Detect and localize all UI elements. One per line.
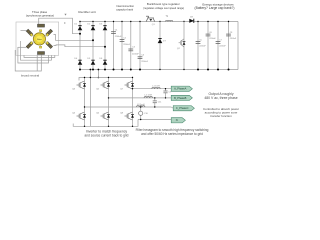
generator stator coil lower-right [46,42,53,49]
wire cap bank column 2 [121,22,123,70]
diode D8 (series, on top rail) [189,19,194,23]
svg-text:C2: C2 [123,37,127,39]
generator stator coil top [38,24,45,27]
svg-text:D5: D5 [87,58,91,60]
svg-text:D1: D1 [74,23,78,25]
wire rectifier column 2 [92,22,94,70]
wire cap bank column 3 [130,22,132,70]
node joints [132,77,133,78]
svg-text:Q7: Q7 [120,89,124,91]
wire DC feed to inverter 2 [97,70,99,78]
wire phase B (to rectifier col 2) [54,35,94,41]
wire neutral loop 2 [21,41,52,60]
wire phase C (to rectifier col 3) [54,45,106,47]
svg-text:2200uF: 2200uF [230,38,237,40]
node rail joints col 2 [92,21,93,22]
svg-text:B_PhaseB: B_PhaseB [174,96,187,100]
transistor Q6 [101,112,109,120]
wire phase line 3 to output [85,106,172,108]
transistor Q1 (series pass, on top rail) [146,16,155,21]
svg-text:D2: D2 [87,23,91,25]
wire DC top rail [80,21,238,23]
node output flag C_PhaseC [173,106,194,111]
svg-text:C8: C8 [230,32,233,34]
svg-text:C10: C10 [144,113,149,115]
svg-text:2200uF: 2200uF [209,38,216,40]
wire rectifier column 3 [104,22,106,70]
wire neutral loop 1 [24,55,55,57]
inductor T1 [166,20,173,21]
svg-text:C_PhaseC: C_PhaseC [176,106,189,110]
diode D2 [91,25,94,27]
svg-text:T1: T1 [165,16,168,18]
capacitor C1 [111,31,116,33]
wire neutral loop 3 [18,47,49,63]
wire storage column 3 [217,22,219,70]
svg-text:2200uF: 2200uF [199,46,206,48]
svg-text:and source current back to gri: and source current back to grid [85,133,129,137]
svg-text:capacitor bank: capacitor bank [116,8,134,12]
diode D1 [78,25,81,27]
inductor L2 [144,97,152,98]
svg-text:transfer function: transfer function [210,114,232,118]
svg-text:480 V ac, three phase: 480 V ac, three phase [204,96,237,100]
node joints [228,21,229,22]
node stray junction [64,22,65,23]
capacitor C2 [120,39,125,41]
wire Q2 leg [183,22,185,70]
wire storage right return [237,22,239,70]
node regulator joints [159,21,160,22]
node rail joints col 1 [79,21,80,22]
generator enclosure box [16,22,59,55]
svg-text:Q8: Q8 [120,113,124,115]
wire inverter column 2 [108,78,110,127]
transistor Q3 [77,81,85,89]
wire cap bank column 4 [139,22,141,70]
annotation: callout arrow [64,14,66,16]
svg-text:Q5: Q5 [96,89,100,91]
svg-text:2200uF: 2200uF [219,46,226,48]
capacitor C5 [196,41,201,43]
svg-text:broad neutral: broad neutral [21,74,40,78]
wire phase A (top route to rectifier col 1) [39,18,80,34]
svg-text:C9: C9 [169,92,173,94]
generator stator coil upper-right [46,29,53,36]
capacitor C4 [138,56,143,58]
node joints [217,21,218,22]
node joints [197,21,198,22]
wire inverter column 3 [132,78,134,127]
wire D7 leg [159,22,161,70]
capacitor C9 (phase A-B) [165,89,167,91]
generator stator coil bottom [38,52,45,55]
svg-text:C11: C11 [158,101,163,103]
diode D6 [103,59,106,61]
capacitor C6 [206,33,211,35]
svg-text:2200uF: 2200uF [132,53,140,55]
wire phase line 2 to output [109,97,172,99]
generator stator coil lower-left [26,42,33,49]
node rail joints col 3 [104,21,105,22]
svg-text:(regulates voltage over speed: (regulates voltage over speed range) [143,7,184,10]
wire DC feed to inverter [89,70,91,127]
svg-text:D3: D3 [99,23,103,25]
node phase tap 3 [104,46,106,48]
wire neutral stub [36,55,38,71]
transistor Q7 [125,81,133,89]
wire inverter bottom rail [73,120,138,127]
wire inverter top rail [79,78,133,81]
transistor Q4 [77,112,85,120]
svg-text:Q6: Q6 [96,113,100,115]
node joints [207,21,208,22]
svg-text:D7: D7 [163,41,167,43]
wire storage column 4 [228,22,230,70]
svg-text:Buck/boost type regulator: Buck/boost type regulator [147,2,180,6]
capacitor C11 (phase B-C) [154,98,156,101]
node joints [139,21,140,22]
wire into flag C [171,107,173,108]
svg-text:L2 1mH: L2 1mH [145,95,153,97]
diode D5 [91,59,94,61]
node joints [113,21,114,22]
node output flag B_PhaseB [171,95,192,100]
svg-text:D4: D4 [74,58,78,60]
svg-text:Q2: Q2 [177,48,181,50]
svg-text:L3 1mH: L3 1mH [137,104,145,106]
svg-text:Q3: Q3 [72,89,76,91]
node joints [84,77,85,78]
node output flag A_PhaseA [171,86,192,91]
svg-text:Q4: Q4 [72,113,76,115]
diode D3 [103,25,106,27]
generator rotor (yellow circle) [33,33,45,45]
capacitor C10 (phase C to N, round symbol) [140,107,142,111]
diode D7 (freewheel) [158,38,161,40]
svg-text:D6: D6 [99,58,103,60]
svg-text:D8: D8 [190,16,194,18]
svg-text:C4: C4 [141,55,145,57]
node joints [121,21,122,22]
wire inverter column 1 [84,78,86,127]
svg-text:C3: C3 [132,47,136,49]
svg-text:(Battery? Large cap bank?): (Battery? Large cap bank?) [195,6,235,10]
capacitor C7 [216,41,221,43]
wire storage column 1 [197,22,199,70]
wire neutral loop 4 (broad neutral bus) [15,50,41,71]
transistor Q5 [101,81,109,89]
svg-text:and offer 50/60 Hz series impe: and offer 50/60 Hz series impedance to g… [141,132,203,136]
wire cap bank column 1 [113,22,115,70]
wire storage column 2 [207,22,209,70]
svg-text:Interconnection: Interconnection [116,4,134,8]
node phase tap 1 [79,33,81,35]
transistor Q8 [125,112,133,120]
svg-text:N: N [176,118,178,122]
wire rectifier column 1 [79,22,81,70]
generator stator coil upper-left [26,29,33,36]
svg-text:C6: C6 [209,32,212,34]
diode D4 [78,59,81,61]
inductor L3 [137,106,145,107]
svg-text:Rectifier unit: Rectifier unit [78,10,95,14]
node joints [130,21,131,22]
wire neutral line N [138,119,171,121]
inductor L1 [152,87,160,88]
svg-text:C7: C7 [219,40,222,42]
wire DC bottom rail [80,69,238,71]
svg-text:(synchronous generator): (synchronous generator) [26,13,54,17]
svg-text:2200uF: 2200uF [141,61,149,63]
capacitor C8 [226,33,231,35]
svg-text:2200uF: 2200uF [115,36,123,38]
capacitor C3 [128,48,133,50]
svg-text:C1: C1 [115,29,119,31]
svg-text:A_PhaseA: A_PhaseA [174,87,187,91]
node output flag N [171,118,185,123]
svg-text:Q1: Q1 [152,24,156,26]
transistor Q2 (boost switch) [179,39,184,47]
node phase tap 2 [92,39,94,41]
svg-text:Rotor: Rotor [37,38,42,41]
node joints [108,77,109,78]
wire phase line 1 to output [133,88,172,90]
svg-text:2200uF: 2200uF [123,44,131,46]
wire coil lead LL [18,46,27,48]
svg-text:C5: C5 [199,40,202,42]
wire coil lead UL [21,30,27,32]
svg-text:L1 1mH: L1 1mH [152,86,160,88]
